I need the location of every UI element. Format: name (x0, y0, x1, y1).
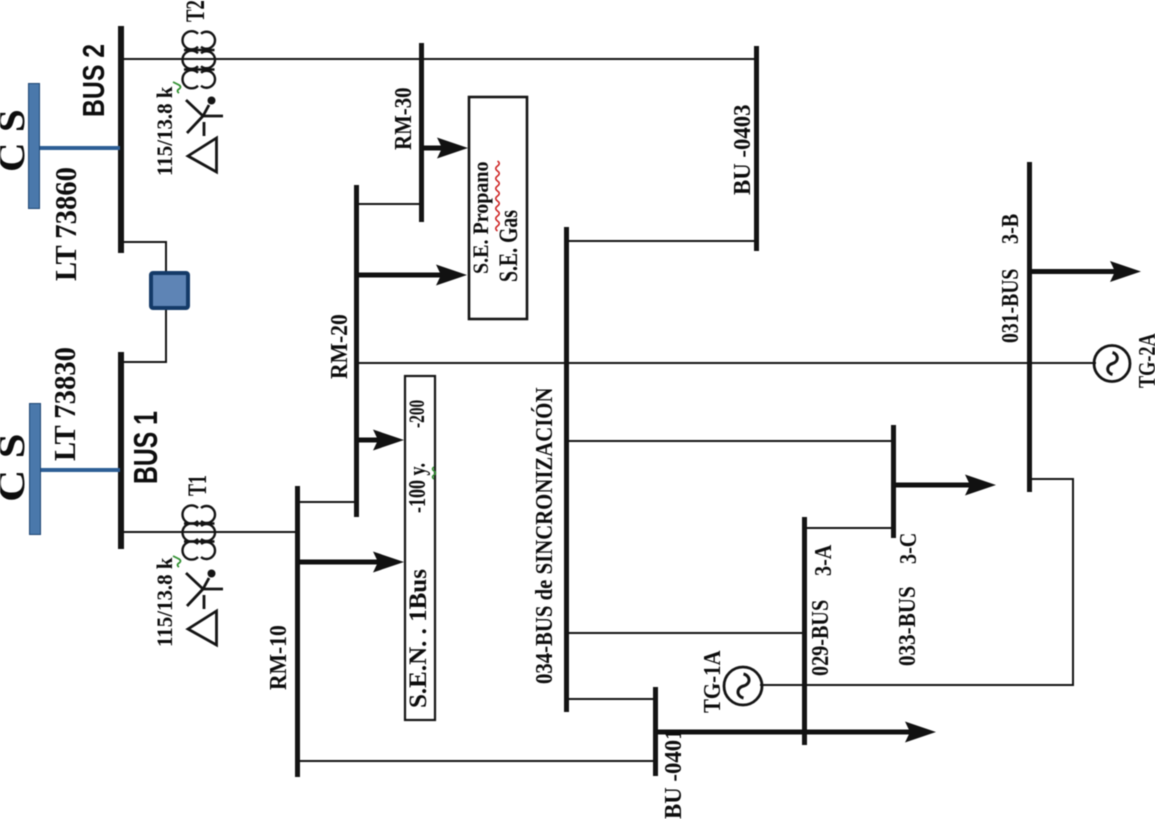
wire RM-20 to RM-30 (357, 203, 421, 205)
arrow 031-BUS feeder (1030, 261, 1141, 282)
delta-wye symbol T2 (186, 97, 223, 173)
bus RM-10 (295, 486, 300, 777)
line LT 73830 blue stub (41, 468, 120, 472)
bus 029-BUS 3-A (802, 517, 807, 745)
bus BUS 1 (118, 352, 124, 549)
line LT 73860 blue stub (40, 146, 120, 150)
wire BUS2 to BU-0403 through transformer T2 (121, 58, 757, 60)
bus 031-BUS 3-B (1027, 162, 1032, 492)
spellcheck mark after 115/13.8 k (T2) (173, 82, 181, 93)
wire BUS1 to RM-10 through transformer T1 (121, 531, 298, 533)
wire 034-BUS to 029-BUS (567, 632, 805, 634)
spellcheck squiggle under Propano (496, 161, 500, 231)
spellcheck squiggle under y (S.E.N. box) (433, 467, 436, 479)
label TG-2A (1136, 333, 1155, 388)
box S.E.N. 1Bus (405, 376, 435, 720)
label BUS 1 (129, 411, 162, 484)
label T1 (185, 475, 211, 496)
label TG-1A (701, 650, 725, 713)
wire 034-BUS to 033-BUS (567, 440, 894, 442)
wire bus-tie BUS1 drop (121, 361, 167, 363)
label BU -0403 (731, 104, 755, 195)
label 115/13.8 k (T2) (154, 87, 176, 176)
wire 029-BUS to 033-BUS (805, 527, 894, 529)
label RM-10 (267, 625, 291, 690)
arrow RM-10 feeder to S.E.N. box (298, 552, 404, 573)
wire 034-BUS to BU-0403 (567, 240, 757, 242)
wire corner horizontal to 031-BUS leg (1072, 478, 1074, 685)
transformer T1 windings (183, 505, 215, 559)
arrow RM-20 feeder to S.E.N. box (357, 430, 404, 451)
generator TG-2A (1094, 346, 1130, 382)
label T2 (183, 0, 209, 22)
wire RM-10 to BU-0401 (298, 760, 656, 762)
label S.E. Gas (496, 210, 522, 282)
label S.E. Propano (470, 161, 492, 274)
label 033-BUS (896, 586, 920, 666)
label 034-BUS de SINCRONIZACION (533, 388, 557, 684)
wire generator TG-1A to corner (760, 684, 1074, 686)
bus BUS 2 (118, 26, 124, 253)
label S.E.N. . 1Bus (406, 569, 431, 708)
bus BU-0403 (754, 46, 759, 251)
label 3-B (999, 214, 1023, 244)
label 3-A (812, 545, 836, 576)
breaker square bus-tie (149, 271, 190, 310)
wire 034-BUS to BU-0401 (567, 698, 656, 700)
label C S (top line) (0, 109, 31, 172)
label -200 (406, 400, 428, 428)
label 115/13.8 k (T1) (154, 558, 176, 647)
spellcheck mark after 115/13.8 k (T1) (173, 556, 181, 567)
label 031-BUS (999, 269, 1023, 343)
CS bar top (LT 73860) (28, 83, 40, 209)
CS bar bottom (LT 73830) (29, 403, 41, 535)
arrow 033-BUS feeder (894, 475, 996, 496)
label BU -0401 (662, 728, 686, 819)
generator TG-1A (724, 667, 762, 705)
label 029-BUS (809, 600, 833, 676)
label 3-C (897, 533, 921, 564)
bus 034-BUS de SINCRONIZACION (564, 227, 569, 712)
arrow RM-30 feeder to S.E. Propano box (422, 138, 468, 159)
label BUS 2 (78, 44, 109, 117)
wire RM-10 to RM-20 (298, 501, 356, 503)
arrow BU-0401 feeder (656, 722, 936, 743)
bus 033-BUS 3-C (891, 425, 896, 538)
label RM-20 (328, 314, 352, 379)
delta-wye symbol T1 (186, 570, 223, 646)
wire leg up to 031-BUS (1030, 478, 1074, 480)
bus RM-30 (419, 43, 424, 222)
arrow RM-20 feeder to S.E. Propano box (357, 265, 467, 286)
bus BU-0401 (653, 687, 658, 776)
label -100 y (406, 463, 430, 513)
label LT 73860 (50, 167, 81, 281)
wire RM-20 to generator TG-2A (357, 362, 1096, 364)
transformer T2 windings (183, 31, 215, 88)
label C S (bottom line) (0, 433, 31, 502)
box S.E. Propano / S.E. Gas (469, 97, 527, 319)
bus RM-20 (354, 185, 359, 517)
wire bus-tie BUS2 drop (121, 241, 167, 243)
label LT 73830 (49, 347, 80, 461)
wire bus-tie horizontal through breaker (165, 241, 167, 362)
label RM-30 (392, 87, 416, 150)
